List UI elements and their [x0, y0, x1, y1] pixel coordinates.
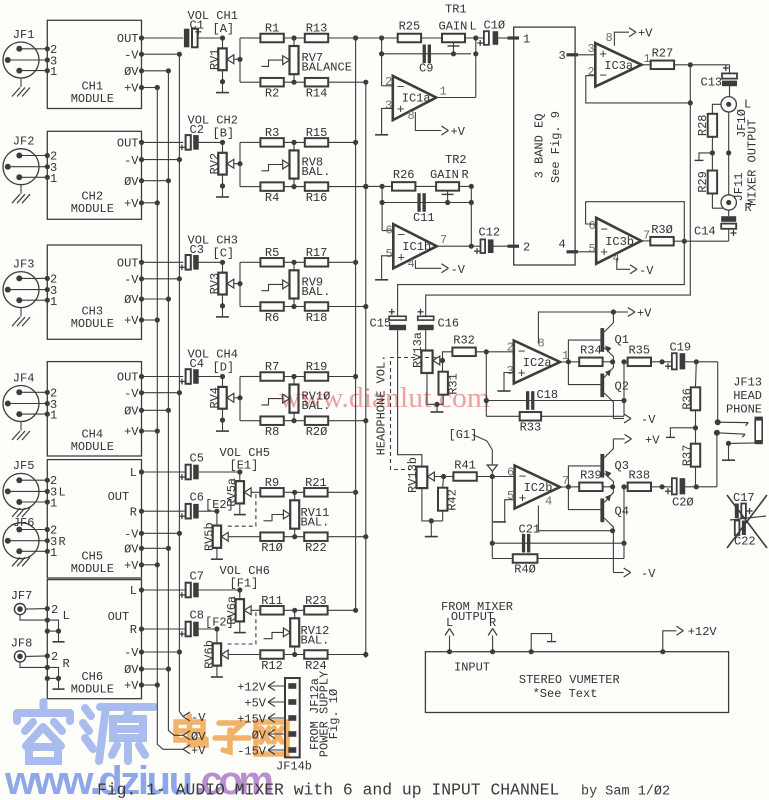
pin +5V JF14b: [288, 699, 296, 705]
svg-text:2: 2: [523, 241, 530, 255]
svg-text:C4: C4: [190, 357, 204, 371]
svg-text:-V: -V: [639, 264, 654, 278]
wire to L mix bus: [329, 376, 356, 378]
svg-text:R37: R37: [680, 445, 694, 467]
svg-text:IC3a: IC3a: [604, 59, 633, 73]
resistor R42: [442, 477, 445, 488]
svg-text:JF11: JF11: [732, 173, 746, 202]
svg-text:5: 5: [589, 242, 596, 256]
wire C16 to RV13a: [425, 330, 427, 350]
wire Q4 base: [568, 487, 600, 510]
resistor R17: [284, 261, 304, 263]
capacitor C2: [142, 141, 184, 143]
svg-text:R3Ø: R3Ø: [651, 223, 673, 237]
ground under RV5b: [216, 548, 218, 559]
balance pot RV7: [293, 38, 295, 46]
jack sleeve ground: [729, 442, 756, 445]
ground under RV1: [222, 82, 224, 93]
wire R28 to midpoint: [711, 137, 713, 153]
svg-text:BALANCE: BALANCE: [302, 61, 352, 75]
svg-text:-V: -V: [124, 154, 139, 168]
svg-text:+V: +V: [638, 27, 653, 41]
svg-text:R12: R12: [261, 659, 283, 673]
pin 2 EQ: [508, 245, 520, 248]
wire R29 to JF11: [712, 194, 723, 209]
resistor R38: [628, 483, 651, 492]
wire balance input: [239, 262, 241, 306]
capacitor C9: [382, 53, 471, 55]
resistor R11: [251, 609, 260, 611]
wire R to headphone: [398, 241, 685, 316]
connector JF10: [729, 86, 731, 97]
svg-text:C11: C11: [413, 211, 435, 225]
svg-text:JF3: JF3: [13, 257, 35, 271]
svg-text:MODULE: MODULE: [71, 682, 114, 696]
svg-text:C3: C3: [190, 243, 204, 257]
svg-text:4: 4: [545, 495, 552, 509]
svg-text:L: L: [470, 20, 477, 34]
volume pot RV1: [198, 37, 223, 39]
wire CH3 0V to bus: [142, 298, 169, 300]
ganged pot dashed link: [226, 612, 256, 644]
wire IC1b output: [437, 245, 472, 247]
svg-text:+V: +V: [124, 197, 139, 211]
wire +V bus: [157, 88, 183, 750]
wire IC1a feedback vertical: [381, 38, 383, 86]
svg-text:[E1]: [E1]: [230, 459, 259, 473]
volume pot RV3: [198, 261, 223, 263]
capacitor C4: [142, 376, 184, 378]
resistor R16: [284, 186, 304, 188]
svg-text:R6: R6: [265, 311, 279, 325]
svg-text:2: 2: [51, 650, 58, 664]
svg-text:BAL.: BAL.: [302, 165, 331, 179]
svg-text:C14: C14: [694, 225, 716, 239]
svg-text:R9: R9: [265, 476, 279, 490]
svg-text:[E2]: [E2]: [205, 498, 234, 512]
svg-text:R27: R27: [652, 47, 674, 61]
ground RV13a R31: [427, 373, 443, 404]
watermark CJK glyph yuan: [83, 707, 154, 761]
pin 1 EQ: [508, 36, 520, 39]
wire IC2a pin3 ground: [504, 373, 514, 391]
svg-text:IC2b: IC2b: [524, 481, 553, 495]
svg-text:RV13a: RV13a: [411, 332, 425, 368]
svg-text:HEAD: HEAD: [733, 389, 762, 403]
pin +12V JF14b: [288, 683, 296, 689]
resistor R36: [695, 362, 698, 388]
wire VU R input: [492, 636, 494, 652]
resistor R27: [651, 61, 674, 70]
svg-text:GAIN: GAIN: [439, 20, 468, 34]
svg-text:JF14b: JF14b: [276, 760, 312, 774]
resistor R6: [249, 306, 261, 308]
svg-text:L: L: [59, 486, 66, 500]
volume pot RV4: [198, 376, 223, 378]
arrow +V rail: [183, 745, 190, 750]
volume pot RV6b: [199, 628, 217, 630]
wire IC3a output: [642, 64, 652, 66]
RCA connector JF8: [14, 651, 25, 662]
svg-text:R35: R35: [628, 344, 650, 358]
svg-text:OUTPUT: OUTPUT: [451, 610, 494, 624]
tap at headphone midpoint: [670, 428, 695, 437]
headphone volume pot RV13a: [421, 351, 432, 374]
svg-text:by Sam 1/Ø2: by Sam 1/Ø2: [581, 785, 670, 800]
op-amp IC1b: [382, 230, 393, 232]
svg-text:R29: R29: [696, 171, 710, 193]
svg-text:OUT: OUT: [117, 257, 139, 271]
pin 3 EQ: [567, 53, 579, 56]
resistor R34: [579, 358, 602, 367]
svg-text:R3: R3: [265, 126, 279, 140]
module CH1: [47, 20, 141, 108]
svg-text:R: R: [63, 657, 70, 671]
ground under JF6: [12, 557, 20, 566]
wire balance input: [239, 142, 241, 186]
deleted capacitor C22: [735, 521, 740, 536]
capacitor C15: [389, 316, 406, 320]
ground under RV4: [222, 420, 224, 431]
svg-text:R33: R33: [520, 421, 542, 435]
ground tap JF8: [20, 662, 59, 678]
wire L to headphone: [426, 103, 691, 316]
svg-text:R11: R11: [261, 594, 283, 608]
wire C20 to JF13: [685, 486, 717, 488]
svg-text:R32: R32: [453, 334, 475, 348]
svg-text:-15V: -15V: [237, 744, 267, 758]
svg-text:R31: R31: [447, 373, 461, 395]
svg-text:8: 8: [408, 109, 415, 123]
svg-text:R4: R4: [265, 191, 279, 205]
resistor R40: [492, 558, 512, 560]
feedback vertical IC2b: [623, 487, 625, 559]
svg-text:-V: -V: [124, 646, 139, 660]
svg-text:R39: R39: [580, 469, 602, 483]
svg-text:2: 2: [51, 603, 58, 617]
svg-text:R7: R7: [265, 360, 279, 374]
balance pot RV8: [293, 142, 295, 150]
wire IC3a pin8 +V: [614, 32, 629, 46]
resistor R30: [650, 237, 673, 246]
wire 0V bus: [168, 71, 183, 736]
arrow 0V rail: [183, 731, 190, 736]
svg-text:+V: +V: [124, 425, 139, 439]
svg-text:L: L: [63, 609, 70, 623]
RCA connector JF7: [14, 604, 25, 615]
svg-text:JF8: JF8: [11, 637, 33, 651]
svg-text:5: 5: [386, 247, 393, 261]
svg-text:3: 3: [588, 42, 595, 56]
wire R mix bus: [365, 82, 367, 658]
transistor Q2: [600, 374, 604, 398]
svg-text:TR2: TR2: [445, 153, 467, 167]
svg-text:7: 7: [440, 233, 447, 247]
balance pot RV9: [293, 262, 295, 270]
wire CH1 +V to bus: [142, 87, 158, 89]
resistor R28: [708, 114, 717, 137]
svg-text:Fig. 1Ø: Fig. 1Ø: [327, 689, 341, 739]
svg-text:RV2: RV2: [208, 153, 222, 175]
svg-text:R16: R16: [306, 191, 328, 205]
block STEREO VUMETER: [425, 652, 728, 713]
svg-text:JF6: JF6: [13, 516, 35, 530]
svg-text:IC1a: IC1a: [402, 92, 431, 106]
capacitor C11: [382, 202, 471, 204]
svg-text:R25: R25: [399, 20, 421, 34]
svg-text:R28: R28: [696, 114, 710, 136]
svg-text:BAL.: BAL.: [302, 399, 331, 413]
balance pot RV12: [294, 610, 296, 618]
resistor R39: [579, 483, 602, 492]
module CH6: [47, 580, 141, 699]
svg-text:Q2: Q2: [615, 380, 629, 394]
svg-text:R19: R19: [306, 360, 328, 374]
wire EQ pin3 to IC3a: [578, 54, 595, 56]
resistor R32: [443, 352, 453, 361]
resistor R9: [251, 491, 260, 493]
wire CH6 +V to bus: [142, 684, 158, 686]
wire CH5 +V to bus: [142, 564, 158, 566]
svg-text:C13: C13: [701, 76, 723, 90]
resistor R13: [284, 37, 304, 39]
wire CH3 +V to bus: [142, 319, 158, 321]
svg-text:MODULE: MODULE: [71, 562, 114, 576]
resistor R26: [392, 182, 415, 191]
svg-text:+15V: +15V: [237, 712, 267, 726]
resistor R20: [284, 420, 304, 422]
resistor R31: [442, 361, 444, 373]
wire CH5 -V to bus: [142, 532, 180, 534]
capacitor C6: [142, 510, 185, 512]
svg-text:RV3: RV3: [208, 273, 222, 295]
svg-text:8: 8: [606, 31, 613, 45]
wire to R mix bus: [329, 420, 366, 422]
wire IC2a pin8 +V: [538, 312, 613, 344]
block 3 BAND EQ: [514, 27, 575, 265]
resistor R10: [228, 536, 260, 538]
svg-text:RV4: RV4: [208, 387, 222, 409]
svg-text:2: 2: [507, 341, 514, 355]
svg-text:-V: -V: [124, 48, 139, 62]
capacitor C13: [729, 65, 731, 74]
svg-text:C22: C22: [734, 535, 756, 549]
svg-text:+12V: +12V: [688, 625, 718, 639]
wire IC1b feedback vertical: [381, 186, 383, 230]
svg-text:R: R: [489, 616, 496, 630]
svg-text:R1Ø: R1Ø: [261, 541, 283, 555]
svg-text:3: 3: [559, 49, 566, 63]
ground under JF1: [20, 78, 22, 87]
volume pot RV5a: [199, 471, 240, 473]
svg-text:JF7: JF7: [11, 589, 33, 603]
transistor Q3: [600, 454, 604, 478]
op-amp IC3b: [596, 218, 641, 264]
svg-text:6: 6: [386, 224, 393, 238]
ground under RV2: [222, 186, 224, 197]
wire IC3a feedback: [689, 65, 691, 103]
jack plug: [755, 419, 762, 441]
svg-text:-V: -V: [124, 273, 139, 287]
capacitor C8: [142, 628, 185, 630]
resistor R3: [249, 141, 261, 143]
svg-text:R1: R1: [265, 22, 279, 36]
svg-text:OUT: OUT: [117, 371, 139, 385]
svg-text:TR1: TR1: [445, 3, 467, 17]
svg-text:2: 2: [588, 65, 595, 79]
transistor Q1: [600, 328, 604, 352]
svg-text:-V: -V: [124, 528, 139, 542]
svg-text:*See Text: *See Text: [533, 687, 598, 701]
resistor R37: [695, 428, 697, 444]
ground tap JF7: [20, 615, 59, 631]
svg-text:BAL.: BAL.: [301, 516, 330, 530]
svg-text:6: 6: [507, 466, 514, 480]
svg-text:R41: R41: [454, 459, 476, 473]
svg-text:C18: C18: [537, 388, 559, 402]
svg-text:C9: C9: [419, 62, 433, 76]
capacitor C7: [142, 589, 185, 591]
wire Q2 base: [568, 362, 600, 385]
svg-text:R: R: [462, 168, 469, 182]
ground under JF4: [20, 422, 22, 431]
svg-text:MODULE: MODULE: [71, 317, 114, 331]
svg-text:R2: R2: [265, 87, 279, 101]
module CH2: [47, 131, 141, 219]
headphone volume pot RV13b: [417, 467, 428, 489]
svg-text:-V: -V: [124, 387, 139, 401]
signal arrow down: [487, 465, 497, 471]
svg-text:R21: R21: [305, 476, 327, 490]
svg-text:1: 1: [50, 295, 57, 309]
wire to R mix bus: [329, 186, 366, 188]
watermark CJK glyph wang: [256, 722, 287, 754]
svg-text:BAL.: BAL.: [301, 633, 330, 647]
pin 0V JF14b: [288, 731, 296, 737]
arrow -V rail: [183, 712, 190, 717]
op-amp IC2a: [514, 341, 560, 384]
svg-text:R4Ø: R4Ø: [514, 563, 536, 577]
wire C15 to RV13b: [398, 330, 422, 466]
svg-text:C6: C6: [190, 491, 204, 505]
svg-text:MODULE: MODULE: [71, 202, 114, 216]
svg-text:C16: C16: [438, 317, 460, 331]
tap at mixer output midpoint: [699, 153, 712, 160]
svg-text:ØV: ØV: [124, 663, 139, 677]
capacitor C12: [471, 245, 480, 247]
ground under JF2: [20, 185, 22, 194]
svg-text:R5: R5: [265, 246, 279, 260]
svg-text:R8: R8: [265, 425, 279, 439]
resistor R35: [628, 358, 651, 367]
trimmer TR2: [415, 185, 436, 187]
svg-text:+V: +V: [124, 559, 139, 573]
svg-text:+V: +V: [645, 433, 660, 447]
+V rail arrow at Q1: [611, 309, 616, 314]
ground under JF3: [20, 308, 22, 317]
wire VU +12V: [663, 631, 677, 652]
svg-text:1: 1: [523, 33, 530, 47]
ganged pot dashed link: [226, 494, 256, 526]
svg-text:-V: -V: [641, 567, 656, 581]
svg-text:+12V: +12V: [237, 680, 267, 694]
-V rail arrow at Q4: [610, 528, 615, 533]
svg-text:ØV: ØV: [124, 405, 139, 419]
svg-text:IC1b: IC1b: [402, 240, 431, 254]
svg-text:6: 6: [589, 219, 596, 233]
wire L mix bus: [355, 38, 357, 612]
capacitor C20: [672, 478, 677, 494]
svg-text:+V: +V: [451, 125, 466, 139]
watermark CJK glyph dian: [176, 716, 206, 745]
wire IC1b pin4 -V: [415, 260, 441, 268]
wire IC3b output: [641, 240, 650, 242]
resistor R24: [284, 654, 305, 656]
svg-text:R15: R15: [306, 126, 328, 140]
svg-text:OUT: OUT: [117, 32, 139, 46]
svg-text:OUT: OUT: [108, 610, 130, 624]
resistor R21: [284, 491, 305, 493]
svg-text:STEREO VUMETER: STEREO VUMETER: [519, 673, 620, 687]
svg-text:[C]: [C]: [213, 247, 235, 261]
svg-text:PHONE: PHONE: [726, 403, 762, 417]
wire IC3b feedback: [586, 202, 685, 242]
op-amp IC2b: [515, 466, 560, 509]
svg-text:IC3b: IC3b: [605, 235, 634, 249]
wire VU L input: [449, 636, 451, 652]
svg-text:R: R: [130, 623, 137, 637]
svg-text:3: 3: [385, 99, 392, 113]
svg-text:R: R: [130, 505, 137, 519]
balance pot RV10: [293, 377, 295, 385]
svg-text:MODULE: MODULE: [71, 92, 114, 106]
resistor R33: [486, 415, 519, 417]
resistor R19: [284, 376, 304, 378]
wire IC3b pin4 -V: [617, 258, 630, 269]
watermark CJK glyph rong: [17, 702, 70, 761]
svg-text:+V: +V: [124, 679, 139, 693]
svg-text:R42: R42: [446, 489, 460, 511]
wire to R mix bus: [328, 536, 366, 538]
wire IC2b pin4 -V: [538, 506, 612, 531]
svg-text:R13: R13: [306, 22, 328, 36]
svg-text:4: 4: [613, 252, 620, 266]
resistor R12: [228, 654, 260, 656]
svg-text:[F2]: [F2]: [205, 616, 234, 630]
svg-text:RV6b: RV6b: [203, 640, 217, 669]
wire balance input: [239, 38, 241, 82]
pin 4 EQ: [567, 250, 579, 253]
resistor R4: [249, 186, 261, 188]
svg-text:1: 1: [50, 497, 57, 511]
wire L sum row: [356, 37, 398, 39]
svg-text:GAIN: GAIN: [430, 168, 459, 182]
capacitor C1: [142, 37, 184, 39]
svg-text:[D]: [D]: [213, 361, 235, 375]
resistor R5: [249, 261, 261, 263]
trimmer TR1: [421, 37, 442, 39]
wire to L mix bus: [328, 609, 356, 611]
capacitor C18: [485, 352, 487, 417]
transistor Q4: [600, 499, 604, 523]
VU ground tap: [531, 634, 551, 652]
svg-text:C2: C2: [190, 123, 204, 137]
svg-text:C21: C21: [519, 523, 541, 537]
wire balance input: [239, 377, 241, 421]
wire CH6 0V to bus: [142, 668, 169, 670]
svg-text:RV5b: RV5b: [203, 522, 217, 551]
wire CH4 -V to bus: [142, 392, 180, 394]
